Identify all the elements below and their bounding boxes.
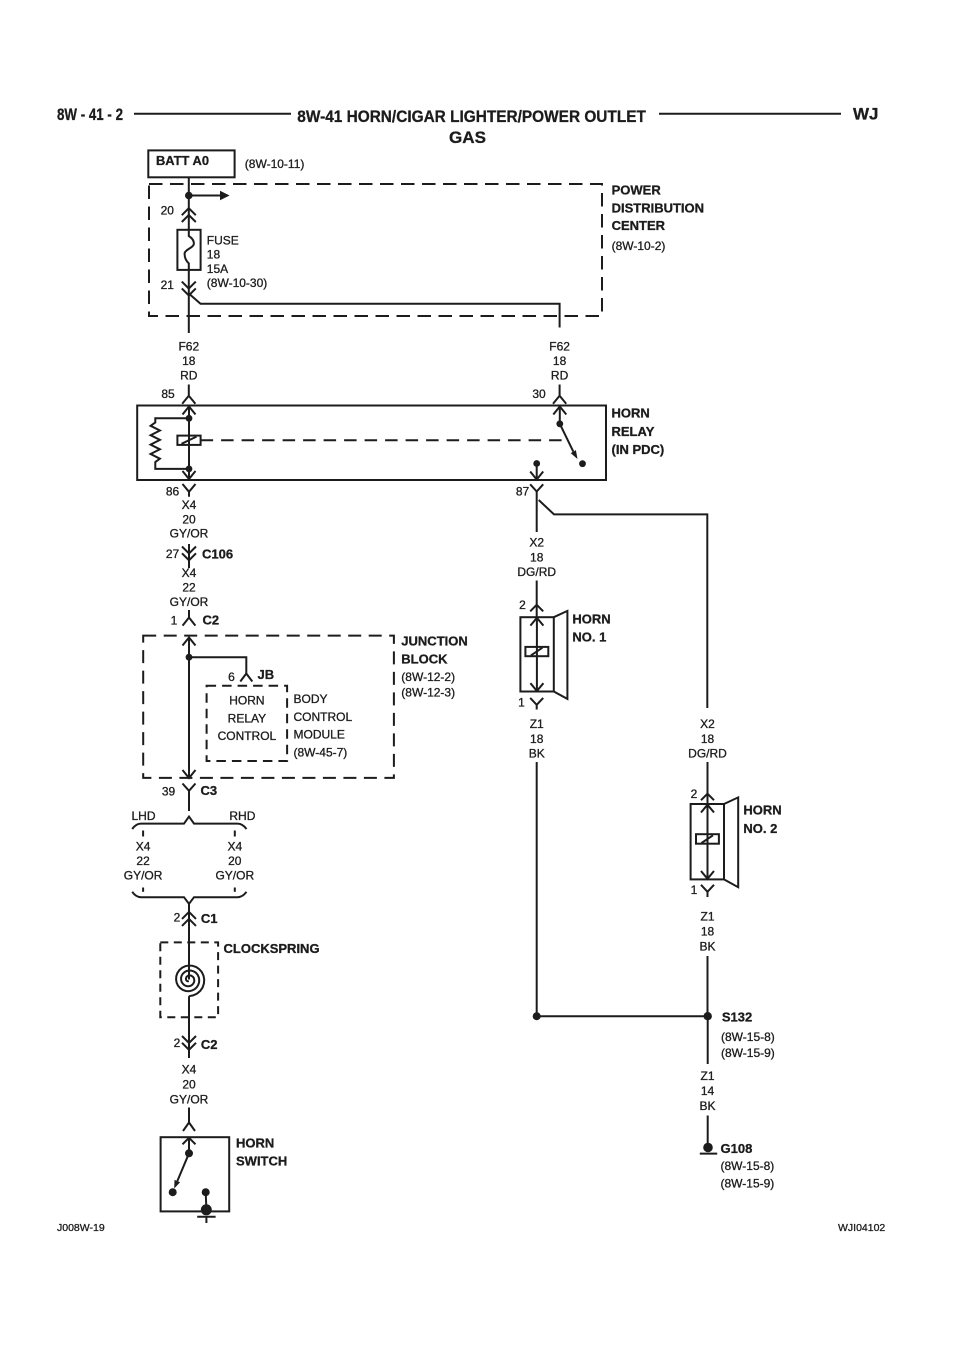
node bottom of coil: [186, 466, 193, 473]
svg-text:C2: C2: [201, 1037, 218, 1052]
svg-text:WJI04102: WJI04102: [838, 1222, 885, 1234]
svg-text:RELAY: RELAY: [228, 711, 266, 725]
svg-text:20: 20: [182, 512, 196, 526]
wire down to horn no.1: [536, 498, 538, 533]
clockspring coil spiral: [176, 966, 204, 997]
svg-text:RELAY: RELAY: [612, 424, 655, 439]
svg-text:SWITCH: SWITCH: [236, 1153, 287, 1168]
wire through junction block: [188, 638, 190, 778]
svg-text:(8W-10-11): (8W-10-11): [245, 157, 305, 171]
horn relay box: [137, 406, 606, 481]
switch arm: [177, 1153, 189, 1181]
svg-text:8W-41 HORN/CIGAR LIGHTER/POWER: 8W-41 HORN/CIGAR LIGHTER/POWER OUTLET: [297, 107, 646, 126]
wire stub to horn no.2: [707, 762, 709, 804]
wire from BATT A0 to fuse: [188, 177, 190, 230]
connector fork at horn switch: [183, 1123, 195, 1132]
LHD wire stub: [142, 831, 144, 837]
splice S132: [537, 1015, 708, 1017]
svg-text:30: 30: [532, 387, 546, 401]
wire down from fuse: [188, 270, 190, 333]
horn switch box: [161, 1137, 230, 1211]
svg-text:DG/RD: DG/RD: [517, 565, 556, 579]
svg-text:C2: C2: [203, 612, 220, 627]
svg-text:X4: X4: [136, 840, 151, 854]
node at battery feed: [185, 192, 193, 200]
svg-text:85: 85: [161, 387, 175, 401]
svg-text:DG/RD: DG/RD: [688, 746, 727, 760]
header rule right: [659, 113, 841, 115]
fuse F20 18 15A: [177, 230, 200, 270]
svg-text:X2: X2: [529, 536, 544, 550]
svg-text:BLOCK: BLOCK: [401, 652, 448, 667]
svg-text:JUNCTION: JUNCTION: [401, 633, 467, 648]
svg-text:GAS: GAS: [449, 128, 486, 147]
svg-text:BK: BK: [699, 939, 715, 953]
svg-text:HORN: HORN: [229, 694, 264, 708]
svg-text:BK: BK: [699, 1099, 715, 1113]
ground G108: [703, 1143, 713, 1153]
connector fork pin 30: [553, 385, 566, 404]
relay actuation dashed link: [201, 439, 563, 441]
battery feed box BATT A0: [148, 150, 234, 177]
connector fork pin 86: [183, 484, 196, 497]
svg-text:BATT A0: BATT A0: [156, 153, 209, 168]
ground at horn switch: [201, 1204, 212, 1215]
wire into clockspring: [188, 942, 190, 979]
svg-text:2: 2: [174, 1036, 181, 1050]
body control module dashed box: [207, 686, 288, 761]
wire branch to BCM pin 6: [189, 657, 252, 681]
svg-text:6: 6: [228, 670, 235, 684]
brace split LHD/RHD: [132, 817, 246, 829]
svg-text:Z1: Z1: [700, 909, 714, 923]
svg-text:GY/OR: GY/OR: [170, 595, 209, 609]
svg-text:Z1: Z1: [700, 1069, 714, 1083]
svg-text:NO. 2: NO. 2: [743, 821, 777, 836]
connector chevrons pin 20: [182, 208, 196, 215]
svg-text:CLOCKSPRING: CLOCKSPRING: [224, 941, 320, 956]
relay common wire pin 30: [559, 406, 561, 424]
node at S132 left: [533, 1012, 541, 1020]
wire out of clockspring: [188, 996, 190, 1058]
svg-text:S132: S132: [722, 1009, 752, 1024]
LHD wire stub lower: [142, 888, 144, 892]
wire stub to horn switch: [188, 1108, 190, 1123]
svg-text:20: 20: [161, 204, 175, 218]
horn no.2 coil: [696, 834, 719, 844]
svg-text:(8W-10-30): (8W-10-30): [207, 276, 267, 290]
RHD wire stub lower: [234, 888, 236, 892]
svg-text:MODULE: MODULE: [294, 728, 345, 742]
svg-text:GY/OR: GY/OR: [124, 868, 163, 882]
svg-text:CONTROL: CONTROL: [218, 729, 277, 743]
svg-text:HORN: HORN: [572, 611, 610, 626]
svg-text:(8W-15-9): (8W-15-9): [721, 1176, 775, 1190]
svg-text:HORN: HORN: [612, 406, 650, 421]
exit arrow junction block: [183, 770, 196, 778]
svg-text:(IN PDC): (IN PDC): [612, 442, 665, 457]
grounded contact: [202, 1188, 210, 1196]
relay coil wire: [188, 406, 190, 481]
svg-text:2: 2: [519, 598, 526, 612]
node to horn relay control: [186, 654, 193, 661]
svg-text:(8W-12-3): (8W-12-3): [401, 686, 455, 700]
svg-text:39: 39: [162, 784, 176, 798]
svg-text:X4: X4: [182, 498, 197, 512]
svg-text:1: 1: [518, 696, 525, 710]
wire to clockspring: [188, 904, 190, 943]
svg-text:RHD: RHD: [229, 809, 255, 823]
wire to LHD/RHD split: [188, 798, 190, 812]
svg-text:F62: F62: [178, 340, 199, 354]
svg-text:18: 18: [530, 732, 544, 746]
svg-text:G108: G108: [721, 1141, 753, 1156]
svg-text:FUSE: FUSE: [207, 233, 239, 247]
svg-text:(8W-15-8): (8W-15-8): [721, 1030, 775, 1044]
ground wire horn no.2 to S132: [707, 956, 709, 1016]
switch contact: [169, 1188, 177, 1196]
svg-text:86: 86: [166, 485, 180, 499]
svg-text:HORN: HORN: [743, 803, 781, 818]
svg-text:BODY: BODY: [294, 692, 328, 706]
horn no.1: [520, 617, 553, 691]
svg-text:JB: JB: [258, 667, 275, 682]
connector fork below horn no.2: [701, 885, 714, 897]
svg-text:1: 1: [691, 883, 698, 897]
svg-text:18: 18: [182, 354, 196, 368]
power distribution center dashed box: [149, 184, 602, 316]
connector fork pin 87: [530, 484, 543, 497]
svg-text:C1: C1: [201, 911, 218, 926]
horn switch entry arrow: [183, 1138, 196, 1145]
svg-text:22: 22: [182, 581, 196, 595]
svg-text:POWER: POWER: [612, 183, 662, 198]
connector fork pin 85: [182, 385, 195, 404]
svg-text:27: 27: [166, 547, 180, 561]
svg-text:DISTRIBUTION: DISTRIBUTION: [612, 200, 704, 215]
relay output wire pin 87: [533, 460, 540, 467]
wire branch to horn no.2: [539, 500, 708, 708]
svg-text:GY/OR: GY/OR: [215, 868, 254, 882]
svg-text:CONTROL: CONTROL: [294, 710, 353, 724]
svg-text:C106: C106: [202, 547, 233, 562]
svg-text:(8W-10-2): (8W-10-2): [612, 239, 666, 253]
svg-text:18: 18: [530, 550, 544, 564]
svg-text:14: 14: [701, 1084, 715, 1098]
relay contact 87 terminal: [579, 460, 586, 467]
svg-text:J008W-19: J008W-19: [57, 1222, 105, 1234]
svg-text:RD: RD: [180, 369, 198, 383]
clockspring dashed box: [160, 942, 218, 1017]
svg-text:X4: X4: [182, 1063, 197, 1077]
connector chevrons pin 21: [182, 282, 196, 289]
svg-text:20: 20: [182, 1078, 196, 1092]
svg-text:LHD: LHD: [132, 809, 156, 823]
switch pivot node: [185, 1149, 193, 1157]
svg-text:X2: X2: [700, 717, 715, 731]
wire stub to ground: [707, 1116, 709, 1145]
wire S132 to G108: [707, 1016, 709, 1064]
svg-text:GY/OR: GY/OR: [170, 527, 209, 541]
relay suppression resistor: [151, 418, 189, 469]
horn no.2: [691, 804, 724, 879]
svg-text:1: 1: [171, 614, 178, 628]
svg-text:2: 2: [691, 787, 698, 801]
svg-text:Z1: Z1: [530, 717, 544, 731]
svg-text:HORN: HORN: [236, 1136, 274, 1151]
ground wire horn no.1 to S132: [536, 762, 538, 1016]
svg-text:20: 20: [228, 854, 242, 868]
node top of coil: [186, 415, 193, 422]
svg-text:CENTER: CENTER: [612, 218, 666, 233]
svg-text:18: 18: [207, 248, 221, 262]
horn no.1 coil: [525, 647, 548, 656]
svg-text:X4: X4: [182, 566, 197, 580]
svg-text:21: 21: [161, 278, 175, 292]
header rule left: [134, 113, 291, 115]
svg-text:WJ: WJ: [853, 105, 879, 124]
svg-text:(8W-12-2): (8W-12-2): [401, 670, 455, 684]
feed arrow to other circuits: [189, 195, 221, 197]
relay coil symbol: [177, 436, 200, 445]
RHD wire stub: [234, 831, 236, 837]
svg-text:18: 18: [553, 354, 567, 368]
connector fork below horn no.1: [530, 698, 543, 710]
svg-text:(8W-15-8): (8W-15-8): [721, 1159, 775, 1173]
svg-text:(8W-15-9): (8W-15-9): [721, 1046, 775, 1060]
svg-text:8W - 41 - 2: 8W - 41 - 2: [57, 105, 123, 124]
relay switch arm: [560, 424, 574, 452]
svg-text:18: 18: [701, 924, 715, 938]
svg-text:GY/OR: GY/OR: [170, 1092, 209, 1106]
svg-text:BK: BK: [529, 746, 545, 760]
svg-text:F62: F62: [549, 340, 570, 354]
brace merge: [132, 892, 246, 904]
junction block dashed box: [143, 636, 394, 778]
svg-text:C3: C3: [201, 783, 218, 798]
wire stub: [536, 581, 538, 618]
wire branch to relay pin 30: [189, 294, 560, 328]
svg-text:87: 87: [516, 485, 530, 499]
svg-text:15A: 15A: [207, 262, 228, 276]
svg-text:18: 18: [701, 732, 715, 746]
svg-text:2: 2: [174, 911, 181, 925]
svg-text:RD: RD: [551, 369, 569, 383]
svg-text:22: 22: [136, 854, 150, 868]
svg-text:NO. 1: NO. 1: [572, 629, 606, 644]
svg-text:(8W-45-7): (8W-45-7): [294, 745, 348, 759]
svg-text:X4: X4: [227, 840, 242, 854]
